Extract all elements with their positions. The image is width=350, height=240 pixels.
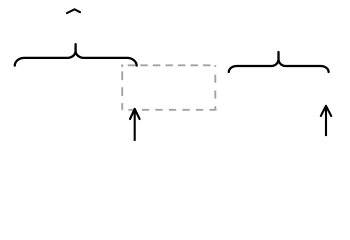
right overbrace [229,52,329,72]
dashed rectangle: bottom-right corner L continuation [215,109,216,111]
dashed rectangle: left edge [121,65,123,110]
right up arrow head [321,106,331,116]
left up arrow head [130,109,140,119]
dashed rectangle: bottom edge [122,109,216,111]
hat accent (caret) above left brace [67,9,80,13]
dashed rectangle: right edge [214,65,216,110]
dashed rectangle: left edge corner tick [121,64,123,67]
right up arrow stem [325,106,327,136]
left up arrow stem [134,109,136,141]
dashed rectangle: top edge [122,64,216,66]
left overbrace [15,44,137,65]
